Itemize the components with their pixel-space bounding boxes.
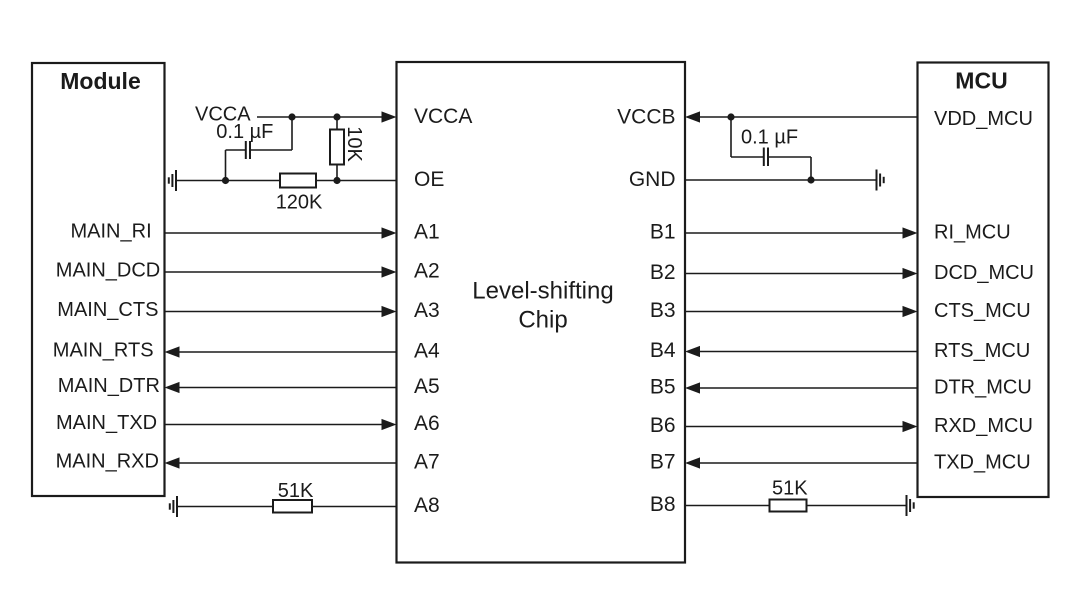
- svg-text:OE: OE: [414, 168, 444, 191]
- svg-text:0.1 µF: 0.1 µF: [216, 121, 273, 143]
- svg-text:B3: B3: [650, 299, 676, 322]
- svg-text:B5: B5: [650, 376, 676, 399]
- svg-text:B2: B2: [650, 261, 676, 284]
- svg-text:MAIN_RXD: MAIN_RXD: [56, 451, 159, 473]
- svg-text:0.1 µF: 0.1 µF: [741, 127, 798, 149]
- svg-text:A5: A5: [414, 375, 440, 398]
- svg-text:MCU: MCU: [955, 68, 1007, 94]
- svg-text:A2: A2: [414, 260, 440, 283]
- svg-text:MAIN_RTS: MAIN_RTS: [53, 340, 154, 362]
- svg-text:CTS_MCU: CTS_MCU: [934, 300, 1031, 322]
- svg-text:B8: B8: [650, 493, 676, 516]
- svg-text:10K: 10K: [343, 126, 365, 162]
- svg-text:120K: 120K: [276, 192, 323, 214]
- svg-text:VCCB: VCCB: [617, 106, 675, 129]
- svg-text:DCD_MCU: DCD_MCU: [934, 262, 1034, 284]
- svg-text:MAIN_TXD: MAIN_TXD: [56, 412, 157, 434]
- svg-text:A3: A3: [414, 299, 440, 322]
- svg-text:MAIN_CTS: MAIN_CTS: [57, 299, 158, 321]
- svg-text:VCCA: VCCA: [414, 105, 472, 128]
- svg-text:51K: 51K: [278, 480, 314, 502]
- svg-text:RTS_MCU: RTS_MCU: [934, 340, 1030, 362]
- svg-text:RXD_MCU: RXD_MCU: [934, 415, 1033, 437]
- svg-text:A4: A4: [414, 340, 440, 363]
- svg-text:B7: B7: [650, 451, 676, 474]
- svg-text:RI_MCU: RI_MCU: [934, 222, 1011, 244]
- svg-text:Level-shifting: Level-shifting: [472, 278, 613, 305]
- svg-text:MAIN_DCD: MAIN_DCD: [56, 260, 160, 282]
- svg-text:DTR_MCU: DTR_MCU: [934, 377, 1032, 399]
- svg-text:GND: GND: [629, 168, 676, 191]
- svg-text:B1: B1: [650, 221, 676, 244]
- svg-text:MAIN_RI: MAIN_RI: [71, 221, 152, 243]
- svg-text:B6: B6: [650, 414, 676, 437]
- svg-text:A7: A7: [414, 451, 440, 474]
- svg-text:B4: B4: [650, 339, 676, 362]
- svg-text:A1: A1: [414, 221, 440, 244]
- svg-text:VDD_MCU: VDD_MCU: [934, 108, 1033, 130]
- svg-text:TXD_MCU: TXD_MCU: [934, 452, 1031, 474]
- svg-text:A6: A6: [414, 412, 440, 435]
- svg-text:MAIN_DTR: MAIN_DTR: [58, 375, 160, 397]
- svg-text:51K: 51K: [772, 478, 808, 500]
- svg-text:A8: A8: [414, 494, 440, 517]
- svg-text:Module: Module: [60, 68, 141, 94]
- svg-text:Chip: Chip: [518, 307, 567, 334]
